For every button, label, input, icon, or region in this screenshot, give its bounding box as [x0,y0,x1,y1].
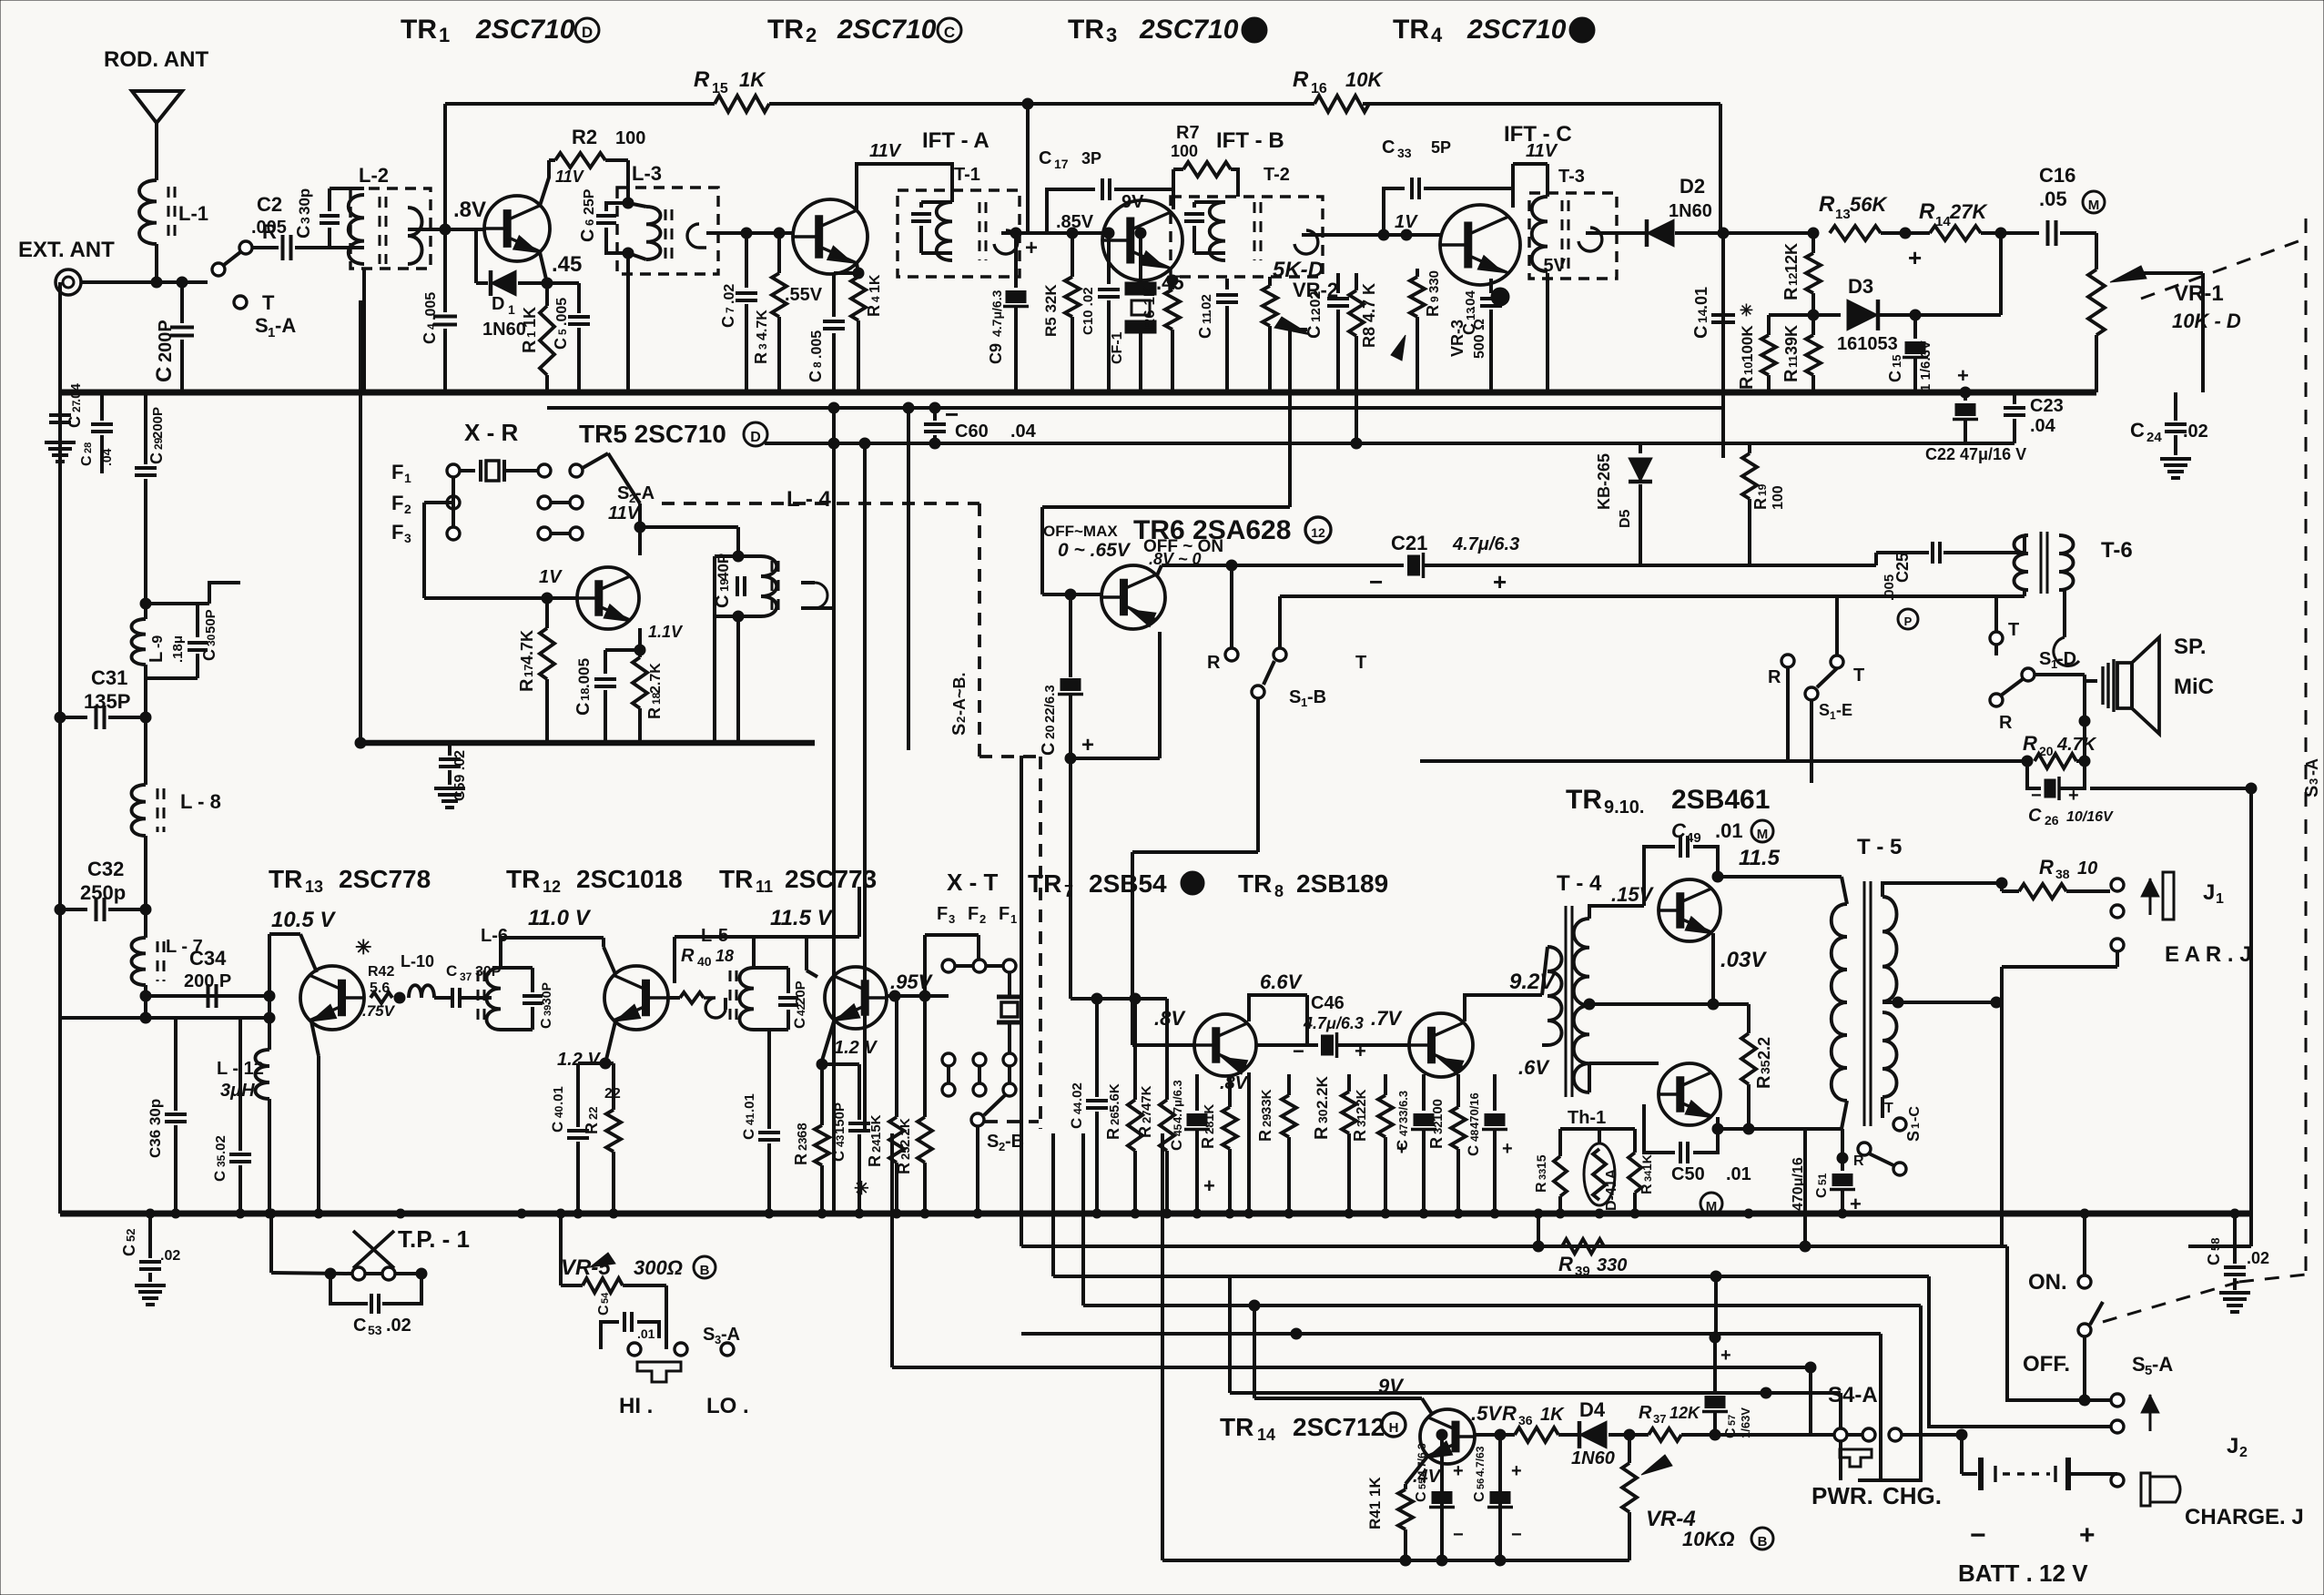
crystal X-R element [460,469,475,472]
wire volume feed [1040,507,1044,594]
svg-text:R6 1K: R6 1K [1141,285,1158,330]
resistor R27 47K [1165,999,1169,1100]
svg-text:.8V: .8V [1154,1007,1186,1030]
svg-text:D2: D2 [1680,175,1705,198]
resistor R8 4.7K [1355,273,1358,290]
svg-text:3: 3 [298,217,312,224]
svg-text:+: + [1081,733,1094,757]
svg-text:40: 40 [553,1105,565,1118]
wire left column [58,282,62,392]
svg-text:13: 13 [1835,207,1851,222]
svg-text:43: 43 [834,1134,847,1147]
svg-text:2.2K: 2.2K [1314,1075,1331,1109]
wire TR10 collector [1712,1123,1723,1134]
resistor R33 15 [1554,1156,1567,1196]
svg-text:-A: -A [2303,758,2321,776]
wire T-5 sec top [1883,883,2002,897]
jack J1 contacts [2111,879,2124,891]
svg-text:C: C [147,452,166,464]
wire C20 return to emitter [1071,757,1160,760]
svg-text:Th-1: Th-1 [1568,1108,1606,1128]
svg-text:100: 100 [1430,1099,1446,1122]
resistor R14 27K [1930,226,1981,240]
svg-text:-E: -E [1836,701,1852,719]
svg-text:17: 17 [1054,157,1069,171]
resistor R28 1K [1228,1074,1232,1107]
capacitor C5 .005 [547,281,579,285]
svg-text:57: 57 [1727,1415,1738,1426]
svg-text:C: C [79,455,95,466]
capacitor C28 .04 [100,392,104,421]
resistor R25 2.2K [923,996,927,1117]
svg-text:3: 3 [404,531,411,545]
svg-text:.6V: .6V [1518,1056,1550,1079]
svg-text:C: C [1414,1491,1429,1502]
jack J2 contacts [2111,1394,2124,1407]
potentiometer VR-1 10K-D [2095,233,2098,269]
svg-text:J: J [2227,1434,2238,1458]
svg-text:✳: ✳ [355,936,371,959]
svg-text:F: F [999,904,1010,924]
jack J2 plug [2141,1473,2150,1506]
svg-text:41: 41 [744,1112,756,1125]
resistor R41 1K [1404,1484,1407,1489]
svg-text:12K: 12K [1782,243,1801,273]
svg-text:ROD. ANT: ROD. ANT [104,47,208,72]
svg-text:X - R: X - R [464,419,518,446]
svg-text:11.0 V: 11.0 V [528,906,592,930]
wire L-4 down [713,616,716,743]
svg-text:161053: 161053 [1837,334,1898,354]
svg-text:R: R [1853,1153,1864,1169]
capacitor C42 20P [754,966,788,970]
wire C34 line [146,994,269,998]
svg-text:11V: 11V [555,168,585,186]
wire audio line [1420,759,2027,763]
resistor R39 330 [1562,1239,1604,1254]
capacitor C7 .02 [741,228,752,239]
battery BATT 12V [1902,1433,1962,1437]
svg-text:C50: C50 [1671,1164,1705,1184]
svg-text:D: D [582,24,593,41]
svg-text:2.2: 2.2 [1755,1037,1773,1060]
svg-text:S4-A: S4-A [1828,1383,1878,1407]
svg-text:.005: .005 [809,330,825,359]
transistor TR1 [484,196,550,261]
svg-text:R: R [1558,1253,1573,1275]
wire 9V feed [1253,1305,1256,1398]
wire audio interconnect 5 [892,1366,1811,1369]
svg-text:+: + [1453,1461,1464,1481]
svg-text:2: 2 [954,716,968,723]
svg-text:11V: 11V [869,141,902,161]
wire T-5 pri [1842,877,1847,904]
wire bottom verticals [1714,1276,1718,1337]
resistor R24 15K [895,996,898,1117]
svg-text:C: C [211,1171,228,1182]
wire R15 drop to bus [443,229,447,312]
capacitor C16 .05 [2046,220,2050,246]
svg-text:18: 18 [715,947,734,965]
wire mid vertical B [863,443,867,1129]
svg-text:R: R [1639,1403,1652,1423]
svg-text:28: 28 [83,442,94,453]
svg-text:R: R [1819,192,1835,217]
svg-text:14: 14 [1935,214,1951,229]
svg-text:10: 10 [2077,858,2097,879]
svg-text:T.P. - 1: T.P. - 1 [398,1225,470,1253]
svg-text:5: 5 [556,329,569,335]
svg-text:OFF.: OFF. [2023,1352,2070,1377]
svg-text:1: 1 [404,471,411,485]
resistor R18 2.7K [638,628,642,657]
svg-text:.75V: .75V [362,1002,396,1020]
svg-text:TR: TR [1220,1413,1253,1441]
inductor L-9 tank [144,583,147,619]
antenna [132,91,182,123]
transformer T-5 [1863,881,1866,1126]
svg-text:R: R [1136,1126,1154,1138]
svg-text:D-41A: D-41A [1604,1168,1619,1211]
capacitor C56 4.7/63 [1498,1435,1502,1560]
capacitor C26 10/16V [2027,761,2041,788]
svg-text:T-3: T-3 [1558,167,1585,187]
svg-text:T: T [1884,1101,1893,1116]
wire TR12 emitter [605,1021,615,1063]
svg-text:R2: R2 [572,126,597,148]
svg-text:40P: 40P [715,554,732,581]
svg-text:1N60: 1N60 [482,320,526,340]
svg-text:3: 3 [949,912,955,926]
wire TR14 base line [1475,1433,1515,1437]
svg-text:R: R [752,352,770,364]
svg-text:47: 47 [1397,1123,1410,1136]
svg-text:.02: .02 [1308,291,1324,311]
capacitor C13 .04 [1489,279,1493,293]
svg-text:.02: .02 [2183,422,2208,442]
svg-text:C: C [294,226,314,239]
svg-text:+: + [1025,236,1038,260]
svg-text:16: 16 [1311,81,1327,97]
resistor R31 22K [1384,1074,1387,1095]
svg-text:LO .: LO . [706,1394,749,1418]
svg-text:22/6.3: 22/6.3 [1042,685,1058,723]
svg-text:3: 3 [1106,24,1117,46]
wire TR2 collector to T-1 [857,164,952,210]
svg-text:9V: 9V [1121,192,1144,212]
svg-text:R: R [1256,1130,1274,1142]
inductor L-8 [144,717,147,785]
svg-text:C59 .02: C59 .02 [452,750,468,801]
resistor R2 100 [549,158,555,162]
svg-text:26: 26 [1108,1112,1121,1125]
svg-text:−: − [1293,1040,1304,1062]
wire bottom ground bus [60,1211,2251,1217]
svg-text:PWR.: PWR. [1812,1482,1873,1509]
transistor TR13 [300,966,364,1030]
right gang dashed vertical [2305,218,2308,1275]
svg-text:1: 1 [524,331,538,338]
resistor R19 100 [1748,443,1751,453]
svg-text:.55V: .55V [785,285,823,305]
wire L-6 feed [499,938,502,968]
capacitor C22 47u/16V [1960,387,1971,398]
resistor R7 100 [1172,169,1175,209]
svg-text:TR: TR [1028,869,1061,898]
svg-text:56: 56 [1476,1478,1487,1489]
svg-text:S: S [987,1132,999,1152]
resistor R15 1K [715,96,769,112]
svg-text:C: C [740,1129,757,1140]
svg-text:J: J [2203,880,2215,905]
svg-text:S: S [2039,649,2051,669]
svg-text:R: R [895,1163,913,1174]
svg-text:X - T: X - T [947,869,998,896]
svg-text:2: 2 [979,912,986,926]
svg-text:.01: .01 [1726,1164,1751,1184]
svg-text:R42: R42 [368,964,394,980]
svg-text:53: 53 [368,1323,382,1337]
capacitor C39 30P [501,966,533,970]
svg-text:39K: 39K [1782,325,1801,355]
X-T lower contacts [942,1053,955,1066]
svg-text:3: 3 [2307,778,2320,785]
svg-text:S: S [949,724,969,736]
potentiometer VR-2 5K-D [1268,277,1272,286]
svg-text:330: 330 [1597,1255,1627,1275]
wire TR4 collector [1511,164,1515,208]
svg-text:C: C [1814,1187,1830,1198]
TR5 block bottom rail [360,740,815,747]
capacitor C33 5P loop [1384,188,1405,235]
capacitor C51 470u/16 [1841,1129,1844,1171]
svg-text:1.2 V: 1.2 V [834,1038,878,1058]
wire TR14 emitter to R41 [1406,1457,1427,1484]
wire TR12 collector [602,938,605,947]
svg-text:28: 28 [1203,1122,1216,1134]
resistor R34 1K [1633,1129,1637,1153]
svg-text:1N60: 1N60 [1669,201,1712,221]
svg-text:R: R [866,1155,884,1167]
transistor TR9 [1659,879,1720,941]
svg-text:C: C [807,371,825,382]
svg-text:S: S [2302,786,2322,797]
svg-text:58: 58 [2208,1238,2222,1251]
svg-text:C: C [2130,419,2145,442]
svg-text:.02: .02 [2247,1249,2269,1267]
wire TR1 emitter [540,252,547,283]
svg-text:TR: TR [1068,15,1104,45]
wire TR5 out [815,606,834,610]
svg-text:L-10: L-10 [401,952,434,970]
svg-text:2SC710: 2SC710 [837,15,937,45]
svg-text:−: − [1369,568,1383,595]
svg-text:-C: -C [1907,1106,1923,1122]
svg-text:C34: C34 [189,947,227,970]
capacitor C15 1/6.3V [1910,310,1921,320]
wire VR-5 to S3 [665,1285,668,1349]
svg-text:H: H [1389,1420,1399,1436]
svg-text:R: R [1751,498,1770,510]
svg-text:4.7K: 4.7K [518,630,536,665]
svg-text:2: 2 [404,502,411,516]
svg-text:12: 12 [1311,525,1325,540]
resistor R5 32K [1071,233,1074,277]
svg-text:25P: 25P [582,188,597,215]
svg-text:8: 8 [1274,882,1284,900]
svg-text:C: C [573,703,594,716]
svg-text:TR: TR [1566,785,1602,815]
wire T-1 sec to TR3 [1001,231,1102,235]
potentiometer VR-4 10K [1628,1435,1631,1463]
svg-text:F: F [391,492,403,514]
transistor TR7 [1194,1014,1256,1076]
wire J1 sleeve [2116,951,2119,967]
svg-text:12: 12 [1786,273,1800,286]
svg-text:1K: 1K [739,68,766,91]
svg-text:+: + [1355,1040,1366,1062]
svg-text:R: R [865,305,883,317]
svg-text:C: C [549,1122,566,1133]
svg-text:51: 51 [1816,1173,1829,1185]
dashed gang S2-A~B [978,503,981,757]
svg-text:R: R [1424,305,1442,317]
svg-text:17: 17 [522,665,535,677]
svg-text:R: R [2023,732,2037,755]
svg-text:3P: 3P [1081,149,1101,168]
transistor TR6 [1101,565,1165,629]
capacitor C55 47/6.3 [1440,1435,1444,1560]
svg-text:9: 9 [1428,296,1441,302]
vertical from top rail [1721,233,1725,458]
TR14 bottom rail [1162,1559,1629,1562]
wire to T-6 [1874,553,1878,565]
svg-text:C: C [1068,1118,1085,1129]
svg-text:68: 68 [795,1123,810,1138]
wire TR13 emitter [311,1021,319,1056]
svg-text:C: C [713,595,733,608]
diode D3 161053 [1813,313,1841,317]
svg-text:33: 33 [1537,1169,1548,1180]
resistor R3 4.7K [774,228,785,239]
resistor R1 1K [545,283,549,306]
wire T-3 sec to D2 [1586,231,1645,235]
svg-text:19: 19 [1756,483,1769,496]
svg-text:14: 14 [1257,1426,1275,1444]
svg-text:5P: 5P [1431,138,1451,157]
svg-text:.5V: .5V [1471,1402,1503,1425]
vertical drops [890,1133,894,1367]
resistor R26 5.6K [1133,999,1137,1100]
svg-text:.005: .005 [251,218,287,238]
svg-text:9V: 9V [1378,1375,1405,1397]
svg-text:44: 44 [1071,1102,1084,1114]
capacitor C54 .01 [601,1322,619,1349]
svg-text:C: C [1886,371,1904,382]
svg-text:14: 14 [1695,309,1710,323]
wire T-5 sec mid [1893,997,1903,1008]
svg-text:32: 32 [1431,1122,1445,1134]
capacitor C59 .02 [439,757,461,761]
node rail junction [1022,98,1033,109]
svg-text:C: C [539,1018,554,1029]
resistor R9 330 [1416,269,1419,277]
transformer T-4 [1565,906,1568,1097]
svg-text:+: + [1396,1139,1407,1159]
svg-text:200 P: 200 P [184,971,231,991]
capacitor C32 250p [55,904,66,915]
svg-text:R: R [1427,1137,1446,1149]
svg-text:300Ω: 300Ω [634,1256,683,1279]
svg-text:L - 8: L - 8 [180,790,221,813]
svg-text:4.7/63: 4.7/63 [1474,1446,1487,1477]
svg-text:.02: .02 [160,1248,180,1264]
svg-text:100: 100 [615,128,645,148]
svg-text:C16: C16 [2039,164,2075,187]
svg-text:11V: 11V [608,503,641,523]
wire TR9 emitter [1711,933,1715,1004]
svg-text:L-2: L-2 [359,164,389,187]
svg-text:KB-265: KB-265 [1595,453,1613,510]
svg-text:C: C [1465,1145,1482,1156]
svg-text:C60: C60 [955,422,989,442]
svg-text:+: + [1493,568,1507,595]
svg-text:C: C [1039,743,1059,756]
svg-text:-D: -D [2057,649,2076,669]
wire TR11 base [887,994,949,998]
svg-text:R8 4.7 K: R8 4.7 K [1360,283,1378,348]
svg-text:.01: .01 [742,1093,757,1112]
svg-text:3: 3 [756,343,769,350]
capacitor C8 .005 [834,271,858,275]
svg-text:1: 1 [2216,891,2224,907]
capacitor C17 3P loop [1047,189,1095,233]
wire TR5 base [424,596,577,600]
svg-text:35: 35 [1758,1060,1772,1074]
svg-text:11: 11 [756,878,773,896]
capacitor C47 33/6.3 [1422,1074,1426,1111]
wire mid vertical C [907,408,910,750]
svg-text:C: C [578,229,598,242]
svg-text:.01: .01 [637,1326,655,1341]
svg-text:R: R [2039,856,2054,879]
svg-text:S: S [1289,687,1301,707]
svg-text:24: 24 [2146,430,2162,445]
wire L-2 primary to bus [362,269,366,392]
svg-text:1K: 1K [521,307,539,328]
svg-text:R: R [1502,1402,1517,1425]
wire audio interconnect 3 [1083,1304,1921,1307]
capacitor C44 .02 [1095,999,1099,1097]
svg-text:R: R [1919,199,1935,224]
svg-text:VR-1: VR-1 [2174,281,2224,306]
switch S2-B [984,1095,1005,1115]
wire bias line [1071,997,1167,1001]
wire sub-rail 2 [765,442,2014,445]
svg-text:C: C [1472,1491,1487,1502]
jack J1 symbol [2141,879,2159,897]
svg-text:−: − [1511,1525,1522,1545]
resistor R30 2.2K [1347,1074,1351,1092]
capacitor C45 4.7u/6.3 [1195,1074,1199,1111]
resistor R22 22 [605,1062,614,1065]
capacitor C58 .02 [2233,1214,2237,1264]
transistor TR10 [1659,1063,1720,1125]
svg-text:4.7μ/6.3: 4.7μ/6.3 [1452,534,1519,554]
T-1 secondary [994,230,1018,254]
svg-text:2SC710: 2SC710 [475,15,575,45]
svg-text:C46: C46 [1311,993,1345,1013]
